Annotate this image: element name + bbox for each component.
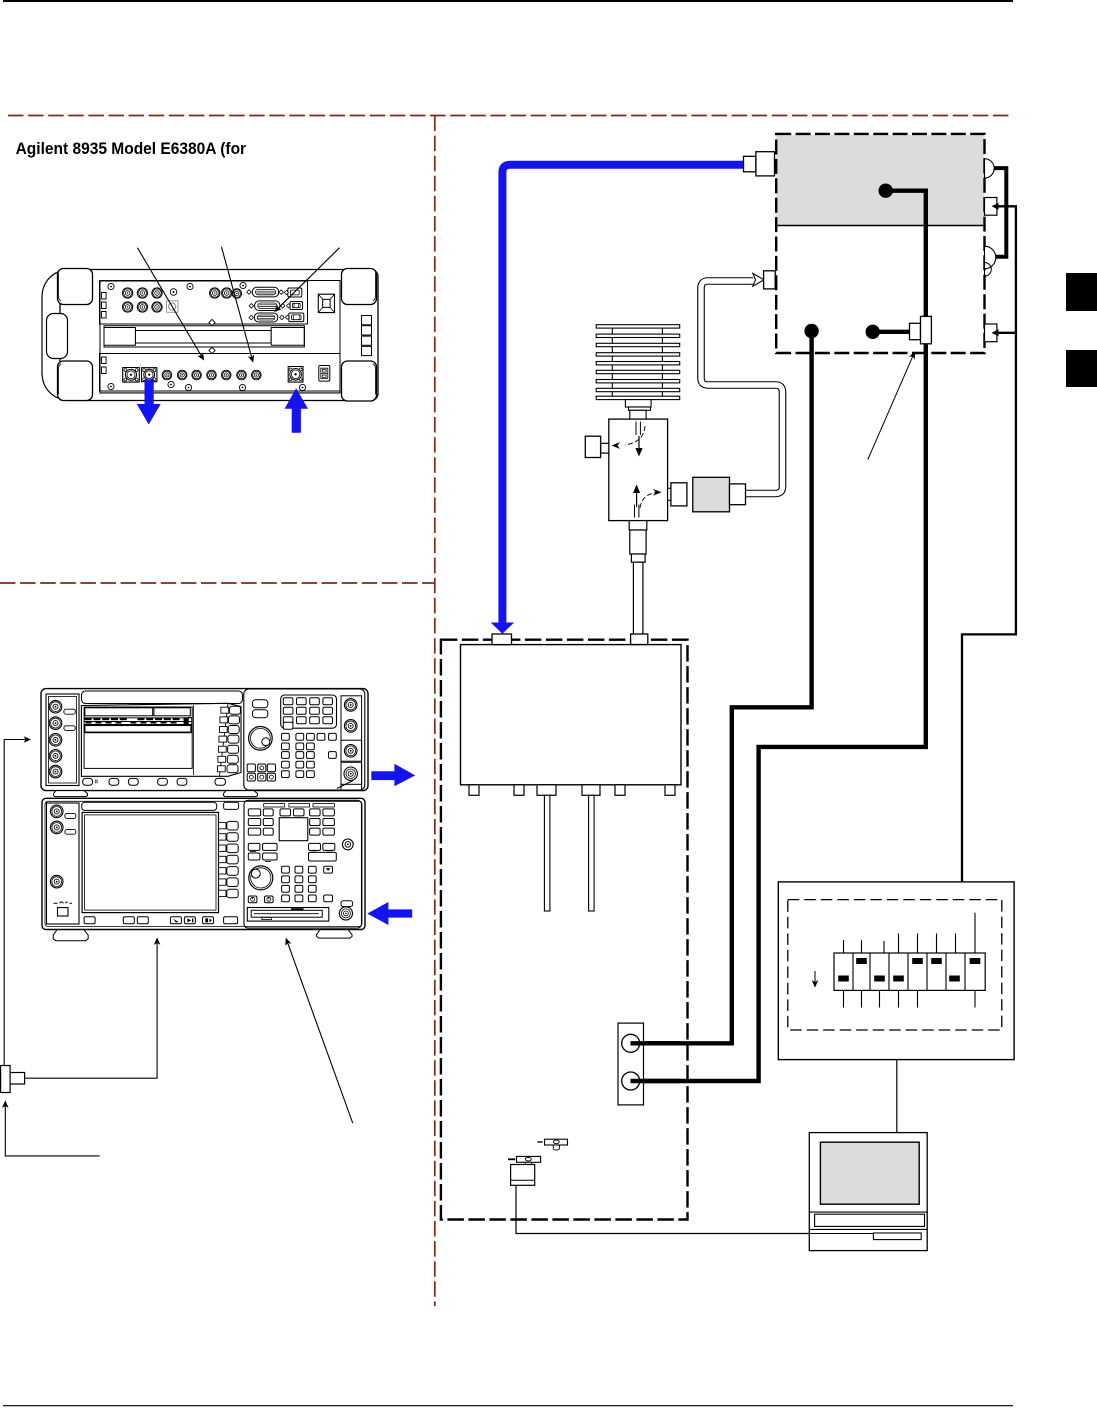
probe antenna 1 <box>544 795 550 911</box>
dual port terminal block <box>618 1023 644 1105</box>
attenuator pad (gray) <box>693 477 730 512</box>
AC power inlet <box>319 366 330 382</box>
heatsink spine <box>611 328 613 396</box>
combiner dashed enclosure <box>441 640 688 1220</box>
callout line to serial port <box>275 248 340 312</box>
analyzer standby keys <box>248 896 257 903</box>
page bottom rule <box>3 1405 1013 1406</box>
callout line to analyzer right section <box>286 939 353 1123</box>
generator right section frame <box>244 689 365 790</box>
analyzer power label and switch <box>54 902 73 904</box>
panel screws <box>108 282 306 390</box>
laptop serial line inside <box>809 1233 873 1235</box>
analyzer media key <box>341 901 353 907</box>
generator preset keys <box>252 700 267 708</box>
connector assembly on wire A <box>910 323 921 339</box>
serial port D-sub 1 <box>252 287 278 297</box>
attenuator right connector <box>730 484 746 505</box>
blue arrow right (generator RF out) <box>371 764 415 787</box>
blue cable arrowhead into combiner box <box>491 623 514 634</box>
port circle upper <box>622 1034 640 1052</box>
generator left connector panel <box>46 694 79 786</box>
DIP switch leads bottom <box>844 990 976 1007</box>
combiner top connector 2 <box>631 634 648 645</box>
base station gray top section <box>776 135 984 226</box>
N-type connector ANT IN <box>123 368 140 383</box>
combiner unit box <box>461 645 682 785</box>
analyzer key cluster tabs <box>264 804 285 807</box>
callout line to connector on wire A <box>868 352 915 459</box>
analyzer key cluster left <box>248 809 273 835</box>
laptop computer <box>809 1133 927 1251</box>
chapter tab 2 <box>1066 350 1097 387</box>
rear lower section panel <box>100 354 341 392</box>
coupler right port <box>668 488 672 500</box>
callout wire plug to analyzer <box>25 939 158 1079</box>
test set rear panel (Agilent 8935) <box>42 269 378 402</box>
analyzer softkeys <box>219 821 239 897</box>
fan housing <box>318 294 334 312</box>
generator top vent strip <box>82 691 243 704</box>
corner foot bottom-right <box>342 361 377 401</box>
directional coupler block <box>609 419 668 520</box>
analyzer measure cluster right <box>309 843 337 861</box>
blue arrow down (DUPLEX OUT) <box>137 380 161 425</box>
coupler internal top flow arrows <box>636 422 640 436</box>
analyzer key cluster middle + nav pad <box>280 809 291 816</box>
coupler output tube down <box>633 562 643 635</box>
wire B: base station port to upper port (thick) <box>631 331 812 1043</box>
edge connector upper right <box>985 198 997 216</box>
N-type connector DUPLEX OUT <box>142 368 157 382</box>
corner foot top-left <box>58 269 93 305</box>
analyzer top strip <box>82 802 217 810</box>
switch unit outer box <box>778 882 1014 1060</box>
analyzer key cluster right <box>310 809 335 835</box>
small port right 1 <box>288 288 302 297</box>
analyzer knob <box>249 866 273 890</box>
analyzer left connector panel <box>47 803 80 924</box>
wire stub into upper port <box>631 1041 681 1045</box>
screen table band2 <box>85 725 192 732</box>
section divider vertical (maroon dashed) <box>434 116 436 1307</box>
rear panel body <box>60 270 378 401</box>
screen table row1 <box>84 717 191 725</box>
wire switch box to laptop <box>896 1060 898 1133</box>
port circle lower <box>622 1072 640 1090</box>
spectrum analyzer front panel (bottom unit) <box>42 798 365 940</box>
rear panel left bumper <box>47 314 68 359</box>
coupler left port connector <box>601 443 609 453</box>
DIP switch leads top <box>844 913 976 953</box>
screen header boxes <box>85 708 153 716</box>
ghosted option connector <box>167 301 179 313</box>
wire stub into lower port <box>631 1079 681 1083</box>
switch unit inner dashed box <box>788 900 1002 1030</box>
coupler bottom neck <box>629 521 647 530</box>
BNC pair upper-middle <box>210 288 220 298</box>
analyzer display <box>82 812 218 912</box>
callout line to DUPLEX OUT <box>137 248 203 360</box>
chapter tab 1 <box>1066 273 1097 311</box>
generator feet <box>54 791 88 797</box>
DIP switch bank <box>834 953 985 990</box>
rear panel left cap <box>42 270 64 400</box>
generator screen <box>84 707 192 768</box>
base station separator line <box>776 225 984 227</box>
node dot port B <box>804 324 818 338</box>
antenna bump lower <box>985 246 996 269</box>
node dot port A <box>866 325 880 339</box>
generator RF output column <box>341 696 362 790</box>
combiner bottom connectors <box>469 785 479 796</box>
analyzer body <box>42 798 365 929</box>
blue arrow up (RF IN/OUT) <box>285 388 308 433</box>
section divider horizontal top (maroon dashed) <box>8 115 1013 117</box>
small connector <box>170 289 177 296</box>
RX edge connector on base station <box>764 271 776 289</box>
tube arrowhead into base station <box>753 273 764 286</box>
probe antenna 2 <box>589 795 595 911</box>
wire F/C: edge connectors to switch box <box>962 206 1016 882</box>
laptop screen (gray) <box>820 1142 919 1204</box>
generator softkey column <box>220 703 229 776</box>
stub arrowhead upper <box>992 203 999 210</box>
laptop hinge line <box>809 1211 927 1213</box>
center screws (diamond) <box>209 319 215 325</box>
page top rule <box>3 0 1013 2</box>
edge connector lower right <box>985 324 997 342</box>
whip antenna A2 with box <box>508 1158 515 1160</box>
generator display bezel <box>81 703 241 776</box>
wall plug connector <box>1 1066 11 1093</box>
handle recess band <box>104 326 304 347</box>
analyzer measure cluster left <box>248 843 277 861</box>
analyzer bottom key row <box>84 917 95 924</box>
analyzer numeric keypad <box>282 866 317 902</box>
wire E: U-link between antenna bumps (thick) <box>994 168 1007 257</box>
analyzer right section frame <box>244 800 362 928</box>
blue cable connector plug <box>744 156 756 172</box>
stub arrowhead lower <box>992 329 999 336</box>
wire C stub <box>997 332 1016 334</box>
small port right 3 <box>289 313 304 322</box>
wire D: base station TX to lower port (thick) <box>631 191 926 1081</box>
generator bottom key row <box>83 778 93 785</box>
base station dashed outline <box>776 134 984 353</box>
generator knob <box>249 727 273 751</box>
wire A: dot to edge connector (thick) <box>873 330 911 334</box>
node dot TX <box>879 184 893 198</box>
laptop keyboard <box>815 1214 925 1226</box>
analyzer RF input N connector <box>339 907 352 920</box>
signal generator front panel (top unit) <box>41 689 368 797</box>
serial wire antenna box to laptop <box>516 1185 809 1233</box>
heatsink neck <box>625 400 651 407</box>
generator body <box>41 689 368 791</box>
serial port D-sub 2 <box>255 301 280 311</box>
blue RF cable to base station <box>502 165 743 623</box>
N-type connector RF IN/OUT <box>288 367 303 383</box>
callout line to RF IN/OUT <box>222 247 253 362</box>
laptop body <box>809 1133 927 1251</box>
generator key grid <box>282 733 337 777</box>
whip antenna A1 <box>537 1141 542 1143</box>
coupler internal bottom flow arrows <box>635 505 639 518</box>
rear top section panel <box>100 281 308 324</box>
BNC connector group upper-left <box>122 288 132 298</box>
section divider horizontal left (maroon dashed) <box>0 582 434 584</box>
DIP switch nubs <box>838 958 980 982</box>
generator utility key cluster <box>247 764 275 781</box>
rear inner panel <box>100 281 340 394</box>
callout wire below plug <box>5 1102 99 1156</box>
heatsink load fins <box>596 325 680 400</box>
panel edge notches <box>102 293 107 300</box>
switch set arrow <box>814 971 816 987</box>
rear right accessory squares <box>362 316 372 325</box>
generator function keypad panel <box>281 695 337 728</box>
serial port D-sub 3 <box>254 313 277 322</box>
combiner top connector 1 <box>492 634 512 645</box>
blue arrow left (analyzer RF in) <box>367 902 412 925</box>
analyzer feet <box>53 930 88 941</box>
callout wire to generator BNC <box>4 740 30 1067</box>
corner foot top-right <box>342 269 377 305</box>
small port right 2 <box>290 302 303 310</box>
analyzer floppy drive <box>247 908 328 922</box>
corner foot bottom-left <box>58 361 93 401</box>
antenna bump upper <box>985 159 995 178</box>
laptop touchpad <box>873 1233 921 1240</box>
BNC row lower <box>162 370 172 380</box>
generator BNC column <box>49 700 62 713</box>
analyzer probe power BNC <box>342 839 353 850</box>
svg-text:Agilent 8935 Model E6380A (for: Agilent 8935 Model E6380A (for <box>16 139 247 158</box>
RX test cable (gray tube) <box>701 281 783 494</box>
laptop base line <box>809 1228 927 1230</box>
